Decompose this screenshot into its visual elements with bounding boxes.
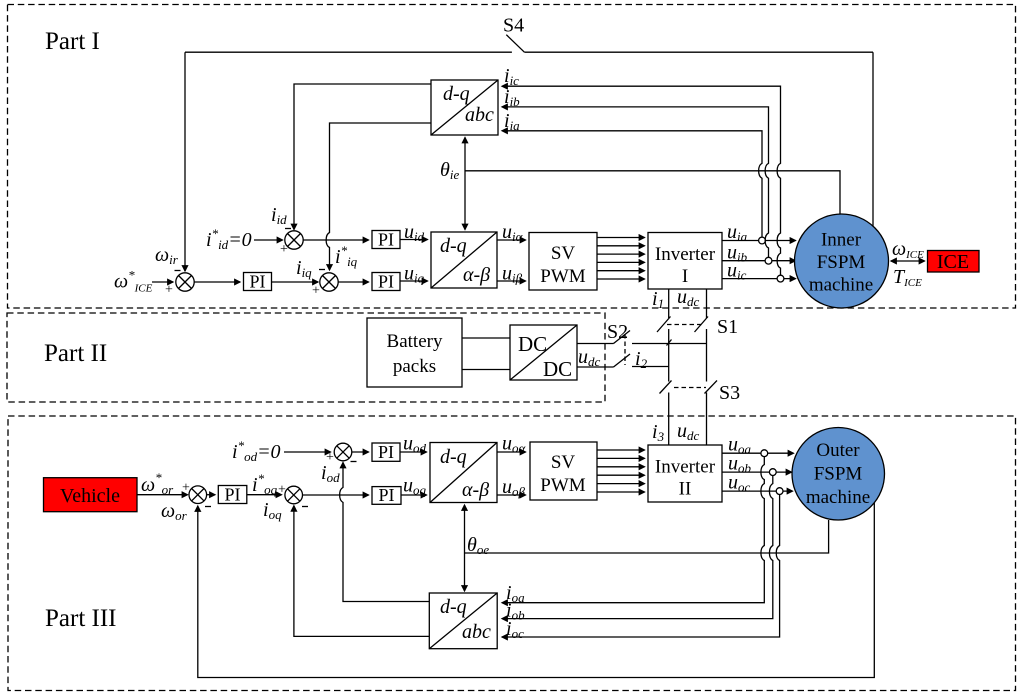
PI controller oq box — [372, 485, 401, 505]
left DC bus lower segment — [668, 393, 670, 446]
Outer FSPM machine — [792, 428, 885, 521]
svg-text:uoβ: uoβ — [502, 476, 526, 499]
svg-text:SV: SV — [551, 452, 576, 473]
wire PI to d-q/alpha-beta (u_iq) — [400, 280, 428, 282]
right DC bus upper segment — [706, 289, 708, 318]
wire i_od feedback from d-q/abc to J6 with hop — [340, 463, 430, 602]
ICE block — [928, 251, 980, 274]
svg-text:i*id=0: i*id=0 — [206, 226, 252, 252]
svg-text:Inverter: Inverter — [655, 457, 716, 478]
svg-text:iod: iod — [321, 462, 340, 485]
wire J6 to PI od — [352, 451, 369, 453]
svg-text:machine: machine — [806, 487, 870, 508]
svg-text:PWM: PWM — [540, 475, 586, 496]
current sensor on u_ib — [765, 257, 772, 264]
svg-text:d-q: d-q — [440, 446, 467, 468]
svg-text:II: II — [679, 479, 692, 500]
svg-text:PI: PI — [378, 272, 394, 292]
current sensor on u_oa — [761, 450, 768, 457]
svg-text:iib: iib — [504, 86, 520, 109]
svg-text:PI: PI — [378, 230, 394, 250]
svg-text:ICE: ICE — [937, 251, 969, 273]
wire i_iq feedback from d-q/abc to J2 with hop — [326, 123, 431, 270]
minus sign at J5 bottom — [302, 506, 308, 508]
svg-text:ωor: ωor — [161, 500, 188, 523]
svg-text:abc: abc — [462, 621, 491, 643]
svg-text:uiα: uiα — [502, 221, 524, 244]
wire i_oc feedback to d-q/abc — [502, 494, 780, 637]
wire J3 to PI d-axis — [303, 239, 368, 241]
svg-text:uiβ: uiβ — [502, 263, 523, 286]
wire J4 to outer speed PI — [207, 494, 215, 496]
svg-text:Inner: Inner — [821, 230, 862, 251]
switch S1 left blade — [657, 317, 671, 333]
svg-text:i1: i1 — [652, 288, 664, 311]
current sensor on u_oc — [776, 488, 783, 495]
Inner FSPM machine — [795, 214, 889, 308]
wire J1 to speed PI — [194, 281, 240, 283]
svg-text:ioq: ioq — [263, 499, 282, 522]
wire PI to d-q/alpha-beta (u_od) — [400, 451, 427, 453]
svg-text:d-q: d-q — [440, 596, 467, 618]
wire PI to d-q/alpha-beta (u_oq) — [401, 494, 427, 496]
wire i_oa feedback to d-q/abc — [502, 456, 764, 602]
switch S3 left blade — [660, 381, 672, 394]
svg-text:uoα: uoα — [502, 433, 527, 456]
DC/DC converter block — [510, 325, 577, 381]
wire omega_ir feedback vertical into J1 — [184, 52, 186, 271]
wire J2 to PI q-axis — [338, 281, 368, 283]
wire u_ia phase to inner machine — [722, 240, 796, 242]
svg-text:Outer: Outer — [816, 440, 860, 461]
svg-text:udc: udc — [677, 420, 700, 443]
PI controller outer speed box — [218, 485, 247, 505]
wire u_ob phase to outer machine — [722, 471, 792, 473]
svg-text:PI: PI — [378, 442, 394, 462]
Part II dashed boundary — [7, 313, 605, 402]
wire i_ib feedback to d-q/abc — [502, 107, 769, 257]
wire PI to d-q/alpha-beta (u_id) — [400, 239, 428, 241]
left DC bus middle segment — [668, 329, 670, 382]
svg-text:iia: iia — [504, 110, 520, 133]
wire S2 upper to bus — [632, 343, 707, 345]
svg-text:uoq: uoq — [403, 475, 427, 498]
switch S3 right blade — [705, 381, 718, 394]
PWM gate signal arrows to Inverter I — [597, 238, 645, 280]
svg-text:Part III: Part III — [45, 605, 117, 632]
minus sign at J1 top — [175, 270, 181, 272]
Part III dashed boundary — [8, 416, 1016, 691]
left DC bus upper segment — [668, 289, 670, 318]
svg-text:Inverter: Inverter — [655, 244, 716, 265]
svg-text:S3: S3 — [719, 382, 740, 404]
svg-text:PWM: PWM — [540, 266, 586, 287]
svg-text:θie: θie — [440, 159, 459, 182]
PWM gate signal arrows to Inverter II — [597, 450, 645, 492]
Inverter I block — [648, 233, 722, 290]
svg-text:Part I: Part I — [45, 28, 100, 55]
switch S1 right blade — [695, 317, 709, 333]
wire u_oa phase to outer machine — [722, 452, 794, 454]
svg-text:SV: SV — [551, 243, 576, 264]
wire S4 right segment — [524, 51, 873, 53]
svg-text:DC: DC — [518, 332, 547, 356]
current sensor on u_ob — [769, 469, 776, 476]
wire outer speed PI to J5 — [247, 494, 282, 496]
d-q/alpha-beta transform block B1 — [431, 232, 497, 288]
switch S2 lower blade — [614, 354, 631, 367]
wire i_2 to left bus — [632, 366, 669, 368]
switch S2 dashed link — [624, 334, 626, 365]
wire u_i_alpha to SVPWM — [497, 239, 526, 241]
minus sign at J2 top — [319, 269, 325, 271]
current sensor on u_ia — [759, 237, 766, 244]
d-q/abc transform block B8 — [429, 593, 497, 649]
wire i_ia feedback to d-q/abc — [502, 131, 762, 237]
minus sign at J3 top — [285, 228, 291, 230]
switch S3 dashed link — [674, 387, 706, 389]
wire omega_or feedback loop — [198, 503, 875, 678]
wire theta_ie from inner machine — [465, 171, 840, 215]
svg-text:FSPM: FSPM — [817, 252, 866, 273]
wire S4 left segment — [185, 51, 512, 53]
summing junction J1 (inner speed) — [176, 273, 194, 291]
wire speed PI to J2 — [272, 281, 319, 283]
svg-text:I: I — [682, 266, 688, 287]
shaft double arrow machine-ICE — [891, 260, 925, 262]
svg-text:FSPM: FSPM — [814, 464, 863, 485]
svg-text:+: + — [165, 283, 173, 298]
SV PWM block (outer) — [530, 442, 597, 500]
d-q/abc transform block B4 — [431, 80, 498, 135]
theta_ie double arrow between transforms — [464, 138, 466, 230]
svg-text:iiq: iiq — [296, 257, 312, 280]
wire u_ic phase to inner machine — [722, 278, 796, 280]
svg-text:d-q: d-q — [443, 83, 470, 105]
wire i_id feedback from d-q/abc to J3 — [294, 84, 431, 230]
wire S4 vertical to inner machine — [872, 52, 874, 228]
wire theta_oe from outer machine — [465, 520, 829, 553]
svg-text:PI: PI — [378, 485, 394, 505]
theta_oe double arrow between transforms — [464, 505, 466, 591]
svg-text:udc: udc — [578, 346, 601, 369]
summing junction J5 (oq current) — [285, 486, 303, 504]
svg-text:ω*or: ω*or — [141, 470, 174, 497]
wire battery to DC/DC lower — [462, 369, 510, 371]
svg-text:S1: S1 — [717, 316, 738, 338]
wire u_o_beta to SVPWM — [497, 494, 526, 496]
svg-text:Part II: Part II — [44, 340, 107, 367]
svg-text:abc: abc — [465, 104, 494, 126]
wire i*_od input to J6 — [284, 451, 331, 453]
summing junction J3 (d-axis current) — [285, 231, 303, 249]
Vehicle block — [44, 478, 138, 512]
SV PWM block (inner) — [529, 233, 597, 291]
minus sign at J4 bottom — [205, 506, 211, 508]
svg-text:PI: PI — [249, 272, 265, 292]
svg-text:ωICE: ωICE — [892, 238, 924, 261]
svg-text:iic: iic — [504, 65, 519, 88]
svg-text:i*iq: i*iq — [335, 243, 358, 269]
Part I dashed boundary — [8, 5, 1016, 309]
PI controller q-axis box — [372, 272, 400, 292]
wire u_i_beta to SVPWM — [497, 280, 526, 282]
svg-text:uod: uod — [403, 433, 427, 456]
d-q/alpha-beta transform block B5 — [430, 443, 497, 503]
minus sign at J6 right-bottom — [351, 461, 357, 463]
svg-text:uid: uid — [404, 221, 425, 244]
svg-text:i2: i2 — [635, 348, 648, 371]
svg-text:d-q: d-q — [440, 235, 467, 257]
PI controller d-axis box — [372, 230, 400, 250]
summing junction J2 (q-axis current) — [320, 273, 338, 291]
svg-text:TICE: TICE — [893, 266, 922, 289]
Battery packs block — [367, 318, 462, 387]
wire speed reference input — [152, 281, 173, 283]
wire u_o_alpha to SVPWM — [497, 451, 526, 453]
right DC bus lower segment — [706, 393, 708, 446]
svg-text:PI: PI — [224, 485, 240, 505]
PI controller od box — [372, 442, 400, 462]
wire DC/DC output upper — [577, 343, 614, 345]
wire DC/DC output lower — [577, 366, 614, 368]
svg-text:α-β: α-β — [463, 264, 490, 286]
svg-text:packs: packs — [393, 356, 436, 377]
svg-text:S4: S4 — [503, 15, 524, 37]
wire i_ob feedback to d-q/abc — [502, 475, 773, 618]
wire u_oc phase to outer machine — [722, 490, 793, 492]
svg-text:uiq: uiq — [404, 263, 425, 286]
svg-text:+: + — [326, 450, 334, 465]
summing junction J4 (outer speed) — [189, 486, 207, 504]
svg-text:i*oq: i*oq — [252, 471, 278, 497]
svg-text:iid: iid — [271, 204, 287, 227]
summing junction J6 (od current) — [334, 443, 352, 461]
wire vehicle speed reference — [137, 494, 188, 496]
right DC bus middle segment — [706, 329, 708, 382]
wire i*_id input to J3 — [254, 239, 283, 241]
Inverter II block — [648, 445, 722, 502]
switch S1 dashed link — [667, 324, 702, 326]
svg-text:ωir: ωir — [155, 244, 179, 267]
wire i_ic feedback to d-q/abc — [502, 86, 781, 275]
wire i_oq output from d-q/abc to J5 — [294, 506, 429, 637]
wire battery to DC/DC upper — [462, 337, 510, 339]
svg-text:machine: machine — [809, 275, 873, 296]
svg-text:ω*ICE: ω*ICE — [114, 268, 153, 295]
svg-text:+: + — [312, 284, 320, 299]
svg-text:α-β: α-β — [462, 479, 489, 501]
switch S4 blade — [506, 35, 524, 53]
switch S2 upper blade — [614, 331, 631, 344]
svg-text:Battery: Battery — [387, 331, 443, 352]
wire J5 to PI oq — [303, 494, 369, 496]
svg-text:DC: DC — [543, 357, 572, 381]
wire u_ib phase to inner machine — [722, 260, 796, 262]
svg-text:S2: S2 — [607, 321, 628, 343]
svg-text:i*od=0: i*od=0 — [232, 438, 281, 464]
svg-text:Vehicle: Vehicle — [60, 485, 120, 507]
junction tick on left bus — [667, 340, 672, 346]
current sensor on u_ic — [777, 275, 784, 282]
svg-text:i3: i3 — [652, 421, 665, 444]
PI controller speed box — [244, 272, 272, 292]
